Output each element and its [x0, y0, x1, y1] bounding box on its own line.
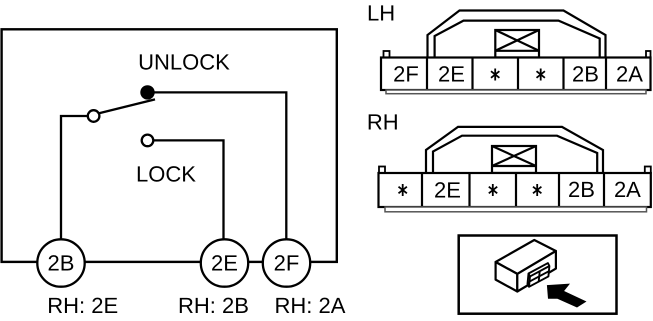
RH connector lock arm inner outline	[433, 136, 597, 173]
RH cell divider *|2B	[558, 173, 560, 207]
LH cell divider 2B|2A	[605, 58, 607, 91]
LH cell divider *|*	[517, 58, 519, 91]
RH connector body row	[379, 173, 651, 207]
svg-text:RH: RH	[367, 109, 399, 134]
LH cell divider *|2B	[562, 58, 564, 91]
LH connector right notch	[646, 51, 651, 58]
LH connector bottom strip	[386, 90, 646, 94]
svg-text:LOCK: LOCK	[136, 162, 196, 187]
LH connector lock arm outer outline	[428, 11, 606, 59]
svg-text:2F: 2F	[274, 251, 300, 276]
RH connector right notch	[645, 167, 651, 174]
connector icon body left face	[496, 262, 518, 292]
RH connector left notch	[379, 167, 385, 174]
svg-text:2A: 2A	[614, 177, 641, 202]
RH cell divider 2E|*	[468, 173, 470, 207]
unlock contact (filled dot)	[140, 85, 154, 99]
wire pivot to terminal 2B	[61, 116, 94, 240]
LH cell divider 2F|2E	[426, 58, 428, 91]
LH pin asterisk 2	[537, 69, 545, 81]
LH connector lock arm inner outline	[435, 21, 600, 58]
terminal 2B	[37, 239, 84, 286]
svg-text:2E: 2E	[434, 177, 461, 202]
connector icon arrow	[547, 284, 587, 308]
svg-text:RH: 2B: RH: 2B	[178, 293, 249, 318]
RH connector crossed keying box	[492, 146, 536, 173]
connector icon body top face	[496, 240, 556, 274]
RH pin asterisk 1	[399, 184, 407, 196]
svg-text:2B: 2B	[48, 251, 75, 276]
lock contact (open circle)	[142, 135, 154, 147]
connector icon body right face	[517, 251, 556, 292]
RH pin asterisk 3	[533, 184, 541, 196]
wire lock contact to terminal 2E	[152, 140, 224, 240]
LH connector left notch	[384, 51, 390, 58]
LH connector body row	[381, 58, 651, 91]
svg-text:2E: 2E	[438, 62, 465, 87]
svg-text:2B: 2B	[568, 177, 595, 202]
svg-text:RH: 2A: RH: 2A	[275, 293, 346, 318]
LH cell divider 2E|*	[471, 58, 473, 91]
pivot contact (open circle)	[88, 110, 100, 122]
svg-text:RH: 2E: RH: 2E	[47, 293, 118, 318]
RH connector lock arm outer outline	[426, 127, 603, 173]
svg-text:2F: 2F	[393, 62, 419, 87]
RH connector bottom strip	[385, 207, 647, 212]
RH cell divider *|*	[515, 173, 517, 207]
LH connector crossed keying box	[495, 30, 539, 58]
switch body box	[2, 29, 337, 262]
LH pin asterisk 1	[491, 69, 499, 81]
svg-text:2A: 2A	[616, 62, 643, 87]
RH pin asterisk 2	[489, 184, 497, 196]
svg-text:UNLOCK: UNLOCK	[138, 50, 230, 75]
connector icon frame	[459, 236, 617, 314]
svg-text:2E: 2E	[211, 251, 238, 276]
svg-text:2B: 2B	[572, 62, 599, 87]
terminal 2F	[263, 239, 310, 286]
connector icon pin block	[528, 263, 550, 287]
svg-text:LH: LH	[367, 1, 395, 26]
wire unlock contact to terminal 2F	[150, 92, 286, 240]
terminal 2E	[201, 239, 248, 286]
RH cell divider *|2E	[421, 173, 423, 207]
wire switch lever	[96, 99, 156, 114]
RH cell divider 2B|2A	[603, 173, 605, 207]
